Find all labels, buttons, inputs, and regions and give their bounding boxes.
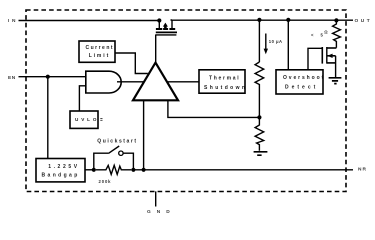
node reference left junction [92, 168, 96, 172]
svg-text:Ω: Ω [324, 29, 328, 34]
label 10uA [269, 39, 283, 44]
wire gate of Q1 to amplifier output [155, 35, 157, 63]
wire amplifier to thermal shutdown [167, 81, 199, 83]
pin label NR [358, 166, 367, 172]
svg-text:IN: IN [8, 18, 18, 24]
wire UVLO to AND gate input [79, 86, 86, 111]
label Quickstart [97, 139, 137, 145]
pin label GND [147, 209, 176, 215]
ground under Q2 [329, 78, 342, 84]
wire IN rail [19, 20, 161, 22]
switch quickstart [94, 146, 134, 170]
node FB junction [257, 115, 261, 119]
current flow arrow [264, 34, 268, 55]
resistor 200k [96, 165, 131, 174]
bandgap box [36, 159, 85, 182]
overshoot detect box [276, 70, 325, 94]
pin label OUT [355, 18, 373, 24]
svg-text:5: 5 [321, 33, 324, 38]
wire bandgap output [85, 169, 94, 171]
wire current limit to amplifier [115, 53, 148, 74]
pin label EN [8, 75, 16, 81]
wire AND gate output to amplifier [117, 81, 144, 83]
svg-text:NR: NR [358, 166, 367, 172]
node EN junction [46, 75, 50, 79]
svg-text:Quickstart: Quickstart [97, 139, 137, 145]
svg-text:UVLO: UVLO [75, 117, 99, 122]
wire reference line to NR pin [133, 169, 353, 171]
ground under R2 [254, 152, 268, 155]
pin label IN [8, 18, 18, 24]
svg-text:10 μA: 10 μA [269, 39, 283, 44]
wire overshoot detect to Q2 gate [308, 48, 322, 70]
wire amplifier non-inverting input to divider [168, 100, 260, 117]
svg-text:200k: 200k [99, 179, 112, 184]
transistor Q1 pass PMOS [155, 20, 177, 35]
resistor R3 discharge [333, 20, 341, 47]
label R3 value [311, 29, 328, 37]
IC boundary dashed border [26, 10, 346, 192]
current limit box [79, 41, 115, 62]
svg-text:Shutdown: Shutdown [204, 85, 247, 91]
svg-text:EN: EN [8, 75, 16, 81]
wire EN [19, 76, 87, 78]
wire EN junction to bandgap [47, 77, 49, 159]
svg-text:Current: Current [86, 45, 115, 51]
node discharge junction [334, 18, 338, 22]
svg-text:Thermal: Thermal [209, 75, 240, 81]
node overshoot junction [286, 18, 290, 22]
wire OUT rail to overshoot detect [287, 20, 289, 70]
svg-text:GND: GND [147, 209, 176, 215]
svg-text:<: < [311, 32, 314, 37]
wire amplifier inverting input [143, 100, 145, 170]
node divider top junction [257, 18, 261, 22]
AND gate U2 [86, 71, 121, 93]
node switch right junction [131, 168, 135, 172]
transistor Q2 discharge NMOS [322, 47, 336, 77]
resistor R2 [255, 117, 264, 150]
node amplifier input junction [142, 168, 146, 172]
svg-text:Bandgap: Bandgap [42, 173, 80, 179]
wire OUT rail [171, 19, 354, 21]
svg-text:OUT: OUT [355, 18, 373, 24]
node IN-gate junction [157, 18, 161, 22]
svg-text:Limit: Limit [89, 53, 110, 59]
wire R1 to FB node [258, 86, 260, 117]
UVLO box [70, 111, 103, 128]
GND pin stub [155, 191, 157, 206]
label 200k [99, 179, 112, 184]
resistor R1 [255, 62, 264, 86]
svg-text:1.225V: 1.225V [48, 164, 79, 170]
thermal shutdown box [199, 70, 247, 93]
wire divider from OUT rail [258, 20, 260, 62]
svg-text:Overshoot: Overshoot [283, 75, 325, 81]
svg-text:Detect: Detect [285, 84, 318, 90]
op-amp U1 error amplifier [133, 63, 178, 101]
